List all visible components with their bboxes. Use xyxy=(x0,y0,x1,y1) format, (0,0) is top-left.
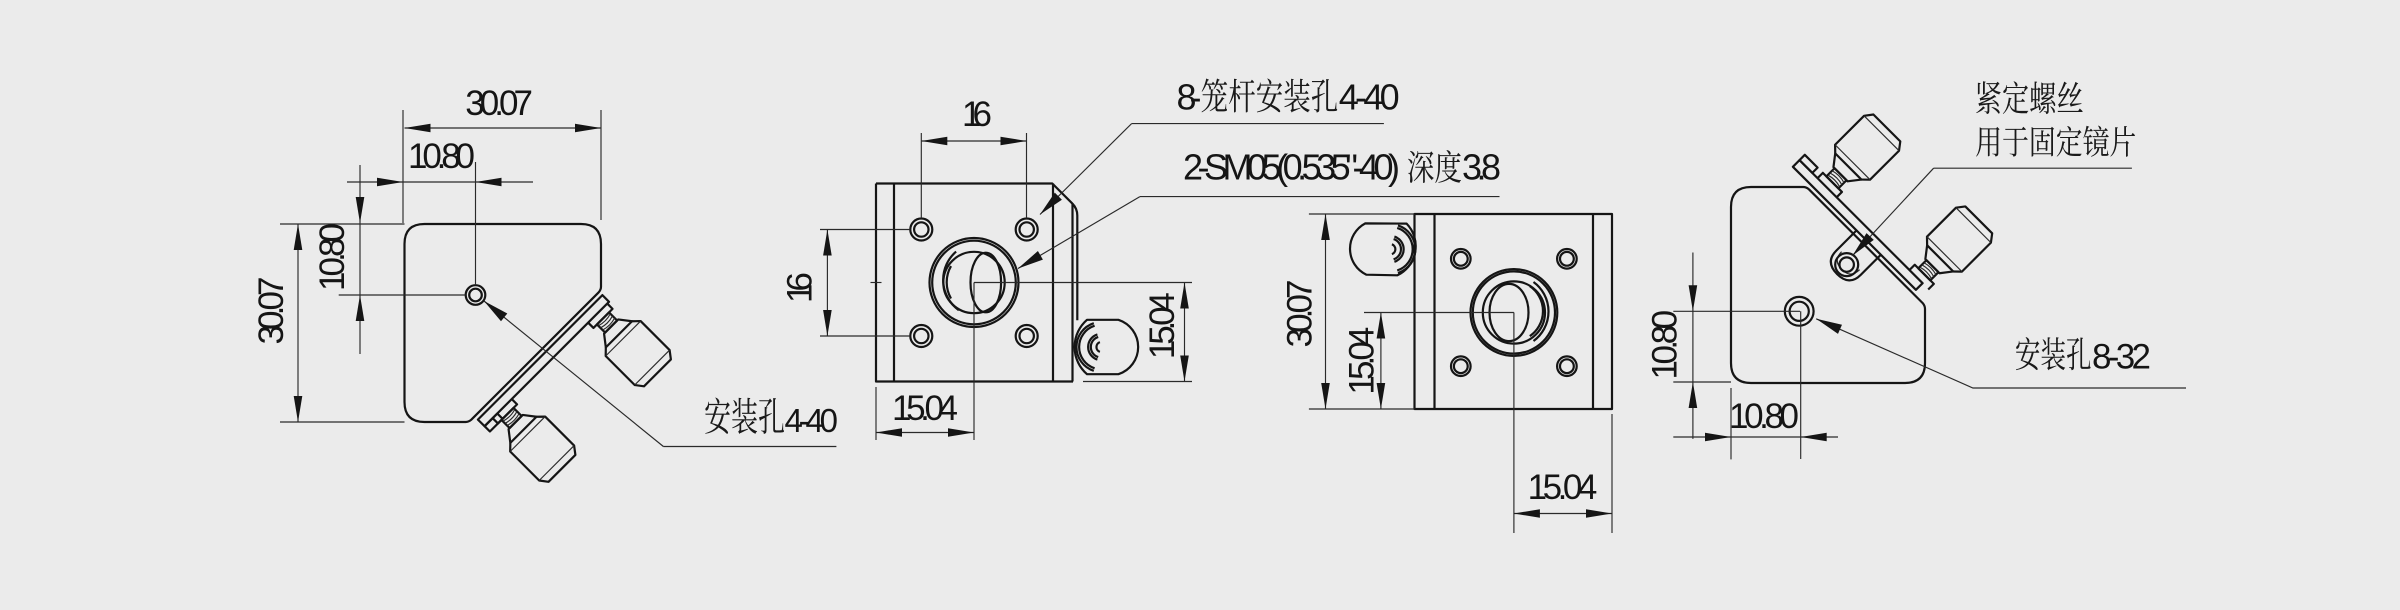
thumbscrew upper view4 xyxy=(1809,110,1904,205)
body outline view3 xyxy=(1415,214,1613,409)
svg-text:15.04: 15.04 xyxy=(1342,327,1381,395)
body outline view2 xyxy=(876,184,1077,216)
svg-text:10.80: 10.80 xyxy=(408,137,475,176)
leader SM05 thread label xyxy=(1018,197,1140,269)
SM05 threaded bore view2 xyxy=(930,238,1019,327)
svg-text:8-: 8- xyxy=(1177,77,1202,118)
mirror plate on 45-deg face view4 xyxy=(1793,160,1923,290)
thumbscrew lower view4 xyxy=(1901,202,1996,297)
dimension 16 vertical view2 xyxy=(820,229,910,231)
edge lines view3 xyxy=(1433,214,1435,409)
dimension 30.07 view3 xyxy=(1309,213,1415,215)
dimension 15.04 right view2 xyxy=(974,282,1192,284)
set screw tab view4 xyxy=(1831,230,1881,280)
svg-text:16: 16 xyxy=(962,95,992,134)
thumbscrew lower view1 xyxy=(484,391,579,486)
svg-text:4-40: 4-40 xyxy=(1339,77,1400,118)
plate end tab view1 xyxy=(485,414,503,432)
svg-text:30.07: 30.07 xyxy=(465,84,533,123)
leader cage rod holes label xyxy=(1040,124,1132,215)
optic seen through bore view2 xyxy=(943,252,1004,313)
optic seen through bore view3 xyxy=(1490,284,1529,341)
side silhouette lines view2 (interrupted by screw) xyxy=(1071,203,1073,381)
cage rod holes view3 xyxy=(1451,249,1471,269)
dimension 10.80 horizontal view4 xyxy=(1800,311,1802,459)
mounting hole view1 xyxy=(466,285,486,305)
dimension 15.04 bottom view3 xyxy=(1513,313,1515,534)
front face edge lines view2 xyxy=(893,184,895,382)
dimension 30.07 horizontal view1 xyxy=(402,110,404,223)
svg-text:15.04: 15.04 xyxy=(892,389,958,428)
set screw view4 xyxy=(1835,253,1858,276)
label text yongyugudingjingpian xyxy=(1976,126,2135,157)
mirror plate on 45-deg face view1 xyxy=(478,295,609,426)
plate end tab view4 xyxy=(1800,155,1818,173)
dimension 30.07 vertical view1 xyxy=(280,223,405,225)
leader line mounting hole 4-40 view1 xyxy=(484,301,663,447)
mounting hole 8-32 view4 xyxy=(1785,297,1814,326)
label text jindingluosi xyxy=(1976,81,2083,114)
svg-text:30.07: 30.07 xyxy=(252,277,291,345)
svg-text:2-SM05(0.535"-40): 2-SM05(0.535"-40) xyxy=(1183,147,1400,188)
adjuster screw side view2 xyxy=(1075,320,1139,374)
leader mounting hole 8-32 label view4 xyxy=(1816,319,2186,388)
label text shendu xyxy=(1408,150,1461,183)
dimension 16 horizontal view2 xyxy=(920,133,922,218)
thumbscrew upper view1 xyxy=(580,295,675,390)
dimension 15.04 bottom view2 xyxy=(875,387,877,440)
centerline tick left edge view2 xyxy=(871,282,882,284)
svg-text:10.80: 10.80 xyxy=(1729,397,1799,436)
dimension 10.80 vertical view4 xyxy=(1673,310,1800,312)
body outline view4 xyxy=(1731,187,1925,383)
adjuster screw side view3 xyxy=(1350,223,1416,275)
label text anzhuangkong view4 xyxy=(2016,337,2091,370)
svg-text:30.07: 30.07 xyxy=(1281,280,1320,348)
svg-text:8-32: 8-32 xyxy=(2092,338,2151,377)
body outline view1 xyxy=(405,224,602,422)
dimension 10.80 horizontal view1 xyxy=(347,181,533,183)
svg-text:10.80: 10.80 xyxy=(1645,310,1684,380)
svg-text:15.04: 15.04 xyxy=(1143,292,1182,359)
svg-text:16: 16 xyxy=(781,272,820,303)
svg-text:3.8: 3.8 xyxy=(1462,147,1501,188)
svg-text:15.04: 15.04 xyxy=(1528,468,1598,507)
cage rod holes view2 xyxy=(910,219,932,241)
leader set screw label view4 xyxy=(1853,168,1934,255)
bore view3 xyxy=(1471,269,1558,356)
svg-text:4-40: 4-40 xyxy=(785,402,839,439)
svg-text:10.80: 10.80 xyxy=(313,223,352,291)
label text anzhuangkong view1 xyxy=(705,398,784,435)
dimension 15.04 left view3 xyxy=(1364,312,1514,314)
label text longgan-anzhuangkong xyxy=(1202,79,1338,113)
dimension 10.80 vertical view1 xyxy=(339,294,466,296)
